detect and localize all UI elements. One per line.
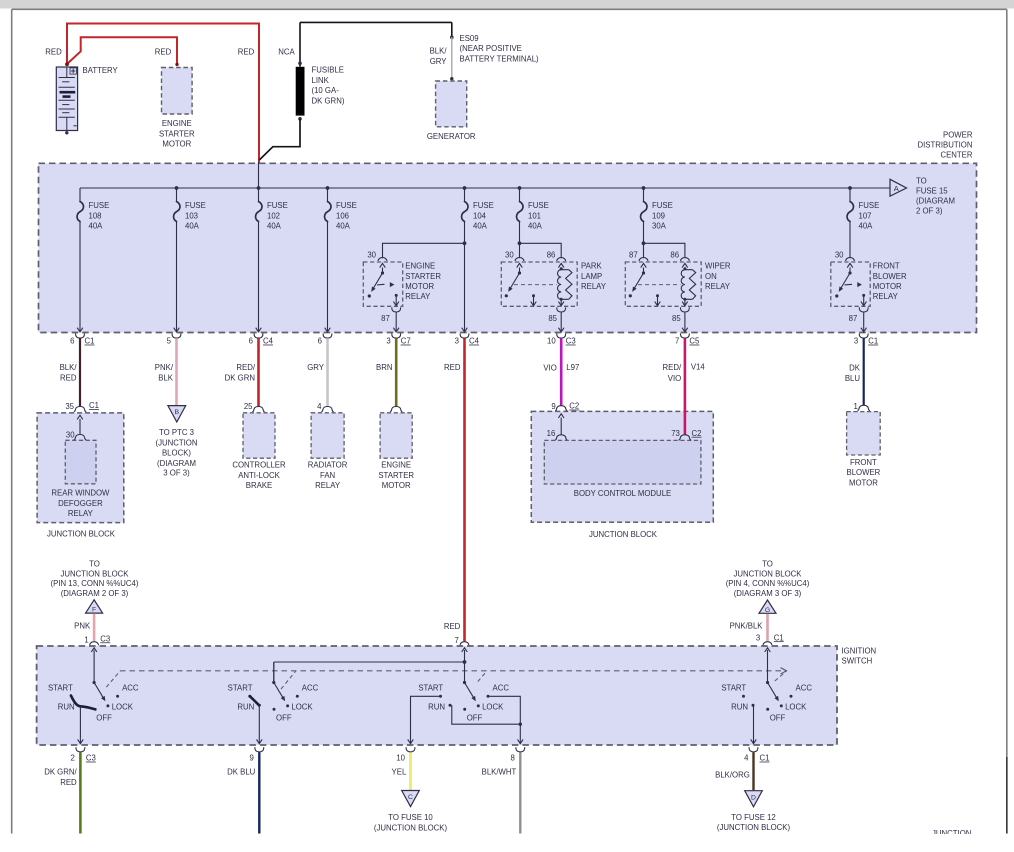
svg-text:F: F	[92, 607, 96, 614]
section4 output to pin 4 C1	[753, 706, 755, 743]
wire fusible link to PDC	[259, 119, 300, 160]
svg-text:(PIN 4, CONN %%UC4): (PIN 4, CONN %%UC4)	[726, 579, 810, 588]
svg-text:RED: RED	[60, 778, 77, 787]
svg-text:30A: 30A	[652, 222, 667, 231]
svg-text:RELAY: RELAY	[581, 282, 607, 291]
relay engine starter motor relay K1 switch	[382, 268, 384, 274]
svg-text:35: 35	[65, 402, 74, 411]
svg-text:30: 30	[367, 251, 376, 260]
svg-text:RED/: RED/	[236, 363, 255, 372]
svg-text:106: 106	[336, 211, 349, 220]
wire RED/DKGRN pin6 C4 to CAB	[257, 338, 260, 406]
svg-text:RUN: RUN	[428, 703, 445, 712]
PDC exit pin 3 C7	[393, 328, 399, 332]
ignition switch section 2	[273, 662, 275, 683]
svg-text:BLK/: BLK/	[60, 363, 78, 372]
svg-text:101: 101	[528, 211, 541, 220]
svg-text:SWITCH: SWITCH	[842, 657, 873, 666]
node engine starter motor terminal	[175, 63, 178, 66]
svg-text:START: START	[418, 683, 443, 692]
node fuse104 branch	[463, 241, 467, 245]
svg-text:DK: DK	[849, 363, 861, 372]
svg-text:RED/: RED/	[663, 363, 682, 372]
svg-text:RED: RED	[444, 363, 461, 372]
svg-text:ACC: ACC	[796, 683, 813, 692]
fuse F103	[174, 188, 206, 231]
PDC exit pin 6	[325, 328, 331, 332]
junction block (rear window defogger)	[37, 413, 124, 523]
svg-text:DK GRN: DK GRN	[225, 373, 255, 382]
node fusible link bottom	[298, 117, 302, 121]
wire pin35 to relay 30	[79, 419, 81, 434]
svg-text:OFF: OFF	[770, 713, 786, 722]
svg-text:5: 5	[167, 337, 172, 346]
svg-text:102: 102	[267, 211, 280, 220]
svg-text:BLK/: BLK/	[430, 47, 448, 56]
svg-text:RUN: RUN	[731, 703, 748, 712]
svg-text:6: 6	[318, 337, 322, 346]
svg-text:16: 16	[547, 429, 556, 438]
svg-text:40A: 40A	[859, 222, 874, 231]
svg-text:FUSE: FUSE	[89, 201, 110, 210]
svg-text:VIO: VIO	[543, 363, 556, 372]
svg-text:(PIN 13, CONN %%UC4): (PIN 13, CONN %%UC4)	[51, 579, 139, 588]
rear window defogger relay box	[65, 440, 96, 484]
node bus junction x=176.5	[175, 186, 179, 190]
position dots	[780, 704, 783, 707]
svg-text:73: 73	[671, 429, 680, 438]
relay wiper on relay K3 box	[625, 262, 701, 306]
svg-text:IGNITION: IGNITION	[842, 646, 877, 655]
svg-text:RELAY: RELAY	[68, 509, 94, 518]
svg-text:FUSE: FUSE	[859, 201, 880, 210]
wire YEL pin 10	[409, 752, 412, 790]
relay park lamp relay K2 coil	[560, 268, 562, 270]
svg-text:GRY: GRY	[430, 57, 448, 66]
svg-text:MOTOR: MOTOR	[382, 481, 411, 490]
svg-text:40A: 40A	[267, 222, 282, 231]
svg-text:(DIAGRAM 3 OF 3): (DIAGRAM 3 OF 3)	[734, 589, 802, 598]
svg-text:RELAY: RELAY	[705, 282, 731, 291]
node bus junction x=464.5	[463, 186, 467, 190]
svg-text:40A: 40A	[528, 222, 543, 231]
svg-text:LOCK: LOCK	[482, 703, 504, 712]
svg-text:JUNCTION BLOCK: JUNCTION BLOCK	[47, 529, 116, 538]
wire DK GRN/RED pin 2 C3	[79, 752, 82, 833]
svg-text:DEFOGGER: DEFOGGER	[58, 499, 103, 508]
svg-text:(DIAGRAM 2 OF 3): (DIAGRAM 2 OF 3)	[61, 589, 129, 598]
svg-text:87: 87	[629, 251, 638, 260]
PDC exit pin 3 C1	[861, 328, 867, 332]
svg-text:C: C	[408, 794, 413, 801]
svg-text:PNK/BLK: PNK/BLK	[730, 622, 764, 631]
node bus junction x=519.5	[518, 186, 522, 190]
relay engine starter motor relay K1 pin 87 output	[395, 294, 398, 297]
PDC exit pin 5	[174, 328, 180, 332]
node pin 4	[321, 407, 333, 412]
svg-text:PARK: PARK	[581, 262, 602, 271]
svg-text:(DIAGRAM: (DIAGRAM	[916, 196, 955, 205]
svg-text:BRN: BRN	[376, 363, 392, 372]
svg-text:FAN: FAN	[320, 471, 335, 480]
wire RED battery to PDC (top red feed)	[67, 24, 259, 163]
svg-text:40A: 40A	[185, 222, 200, 231]
svg-text:DK BLU: DK BLU	[227, 768, 256, 777]
wire DK BLU pin 9	[258, 752, 260, 833]
svg-text:BLK/ORG: BLK/ORG	[715, 771, 750, 780]
svg-text:C4: C4	[469, 337, 480, 346]
svg-text:BLOWER: BLOWER	[847, 468, 881, 477]
wire fuse 104 to pin 3 C4	[464, 222, 466, 331]
svg-text:6: 6	[70, 337, 74, 346]
svg-text:C1: C1	[774, 633, 784, 642]
svg-text:107: 107	[859, 211, 872, 220]
node ES09	[450, 35, 454, 39]
svg-text:JUNCTION BLOCK: JUNCTION BLOCK	[733, 569, 802, 578]
svg-text:RED: RED	[444, 622, 461, 631]
wire GRY pin6 to radiator fan relay	[326, 338, 329, 406]
radiator fan relay box	[311, 413, 344, 458]
relay wiper on relay K3 pin 85 output	[684, 299, 686, 305]
fuse F102	[256, 188, 288, 231]
wire NCA generator to fusible link	[300, 22, 452, 66]
svg-text:40A: 40A	[336, 222, 351, 231]
front blower motor box	[847, 412, 881, 455]
svg-text:104: 104	[473, 211, 487, 220]
wire RED/VIO pin7 C5 to BCM pin 73	[684, 338, 687, 435]
svg-text:MOTOR: MOTOR	[162, 140, 191, 149]
svg-text:LOCK: LOCK	[785, 703, 807, 712]
relay wiper on relay K3 pin 87a stub	[656, 294, 659, 297]
node generator terminal	[450, 77, 453, 80]
svg-text:108: 108	[89, 211, 102, 220]
svg-text:RUN: RUN	[237, 703, 254, 712]
svg-text:ACC: ACC	[122, 683, 139, 692]
svg-text:FUSE: FUSE	[652, 201, 673, 210]
wire BLK/ORG pin 4 C1	[752, 752, 754, 790]
svg-text:3: 3	[455, 337, 459, 346]
mechanical link dashed line	[120, 670, 784, 672]
svg-text:BLOCK): BLOCK)	[162, 449, 191, 458]
svg-text:RELAY: RELAY	[315, 481, 341, 490]
wire BLK/GRY to generator	[451, 37, 453, 78]
svg-text:DK GRN/: DK GRN/	[44, 768, 77, 777]
position dots	[286, 704, 289, 707]
PDC exit pin 3 C4	[462, 328, 468, 332]
svg-text:TO: TO	[89, 560, 100, 569]
body control module box	[544, 440, 701, 484]
node starter motor terminal	[390, 407, 402, 412]
wire fuse 109 to wiper relay 87	[643, 222, 645, 259]
node pin 35 C1	[74, 407, 86, 412]
marker A to fuse 15	[890, 179, 907, 196]
svg-text:(NEAR POSITIVE: (NEAR POSITIVE	[460, 44, 522, 53]
svg-text:LAMP: LAMP	[581, 272, 602, 281]
svg-text:FUSE: FUSE	[528, 201, 549, 210]
wire BRN pin3 C7 to starter motor	[395, 338, 398, 406]
battery B1	[56, 67, 77, 135]
node fuse109 branch	[642, 241, 646, 245]
svg-text:85: 85	[672, 314, 681, 323]
svg-text:C7: C7	[401, 337, 411, 346]
svg-text:MOTOR: MOTOR	[849, 478, 878, 487]
relay wiper on relay K3 coil	[684, 268, 686, 270]
svg-text:BLK: BLK	[158, 373, 174, 382]
svg-text:BATTERY TERMINAL): BATTERY TERMINAL)	[460, 54, 540, 63]
svg-text:2: 2	[71, 754, 75, 763]
wire DKBLU pin3 C1 to front blower motor	[863, 338, 865, 405]
svg-text:JUNCTION BLOCK: JUNCTION BLOCK	[60, 569, 129, 578]
svg-text:1: 1	[84, 636, 88, 645]
fuse F108	[77, 188, 109, 231]
svg-text:C1: C1	[89, 401, 99, 410]
svg-text:A: A	[894, 184, 899, 193]
svg-text:8: 8	[510, 754, 514, 763]
svg-text:BRAKE: BRAKE	[246, 481, 272, 490]
position dots	[477, 704, 480, 707]
svg-text:RED: RED	[60, 373, 77, 382]
svg-text:30: 30	[505, 251, 514, 260]
svg-text:ACC: ACC	[302, 683, 319, 692]
svg-text:ON: ON	[705, 272, 717, 281]
wire fuse 102 to pin 6 C4	[258, 222, 260, 331]
bottom white crop	[0, 834, 1014, 852]
svg-text:10: 10	[547, 337, 556, 346]
svg-text:40A: 40A	[473, 222, 488, 231]
svg-text:TO FUSE 12: TO FUSE 12	[731, 813, 776, 822]
svg-text:3: 3	[854, 337, 858, 346]
svg-text:LOCK: LOCK	[291, 703, 313, 712]
section1 wiper arc	[71, 696, 96, 710]
wire bus bar	[80, 187, 890, 189]
wire fuse 101 to park relay 30	[519, 222, 521, 259]
svg-text:FRONT: FRONT	[850, 458, 877, 467]
svg-text:RED: RED	[238, 47, 255, 56]
engine starter motor (top) box	[162, 68, 193, 115]
svg-text:START: START	[48, 683, 73, 692]
svg-text:4: 4	[744, 754, 749, 763]
fuse F104	[462, 188, 494, 231]
PDC exit pin 6 C1	[77, 328, 83, 332]
svg-text:87: 87	[381, 314, 390, 323]
node front blower motor pin 1	[858, 405, 870, 410]
relay wiper on relay K3 internal dashed link	[638, 284, 680, 286]
node pin 25	[252, 407, 264, 412]
wire feed into PDC	[258, 162, 260, 188]
section3 ACC/RUN output to pin 8	[452, 696, 521, 743]
svg-text:C3: C3	[86, 754, 96, 763]
svg-text:10: 10	[396, 754, 405, 763]
mechanical link diagonal	[281, 671, 296, 689]
svg-text:103: 103	[185, 211, 198, 220]
wire RED pin3 C4 to ignition switch pin 7	[463, 338, 466, 641]
svg-text:V14: V14	[691, 363, 706, 372]
PDC exit pin 6 C4	[256, 328, 262, 332]
svg-text:DISTRIBUTION: DISTRIBUTION	[917, 140, 972, 149]
svg-text:3 OF 3): 3 OF 3)	[163, 468, 190, 477]
svg-text:PNK: PNK	[74, 621, 91, 630]
fusible link F-LINK	[296, 67, 305, 116]
svg-text:MOTOR: MOTOR	[873, 282, 902, 291]
svg-text:7: 7	[675, 337, 679, 346]
wire VIO pin10 C3 to junction block pin 9	[560, 338, 563, 406]
fuse F106	[325, 188, 357, 231]
svg-text:C2: C2	[692, 429, 702, 438]
svg-text:YEL: YEL	[392, 768, 407, 777]
relay park lamp relay K2 pin 87a stub	[532, 294, 535, 297]
svg-text:9: 9	[551, 402, 555, 411]
svg-text:9: 9	[249, 754, 253, 763]
svg-text:3: 3	[756, 634, 760, 643]
svg-text:G: G	[765, 607, 770, 614]
wire ignition feed line	[274, 662, 465, 683]
svg-text:C2: C2	[569, 402, 579, 411]
svg-text:CONTROLLER: CONTROLLER	[232, 461, 286, 470]
svg-text:LOCK: LOCK	[112, 703, 134, 712]
svg-text:BLOWER: BLOWER	[873, 272, 907, 281]
svg-text:BLK/WHT: BLK/WHT	[482, 768, 517, 777]
svg-text:TO FUSE 10: TO FUSE 10	[388, 813, 433, 822]
svg-text:2 OF 3): 2 OF 3)	[916, 206, 943, 215]
svg-text:3: 3	[386, 337, 390, 346]
wire RED battery to engine starter motor	[67, 37, 177, 64]
svg-text:B: B	[175, 409, 180, 416]
svg-text:1: 1	[853, 402, 857, 411]
section3 START output to pin 10	[411, 696, 442, 743]
engine starter motor (lower) box	[380, 413, 412, 458]
svg-text:POWER: POWER	[943, 130, 973, 139]
svg-text:FUSE: FUSE	[473, 201, 494, 210]
section1 output to pin 2 C3	[79, 706, 81, 739]
svg-text:30: 30	[835, 251, 844, 260]
fuse F109	[641, 188, 673, 231]
svg-text:85: 85	[548, 314, 557, 323]
svg-text:JUNCTION BLOCK: JUNCTION BLOCK	[589, 530, 658, 539]
svg-text:RED: RED	[155, 47, 172, 56]
svg-text:FRONT: FRONT	[873, 262, 900, 271]
svg-text:REAR WINDOW: REAR WINDOW	[51, 489, 110, 498]
svg-text:OFF: OFF	[467, 713, 483, 722]
node pin 73 C2	[679, 435, 691, 440]
node fuse101 branch	[518, 241, 522, 245]
wire PNK marker F to ignition pin 1	[93, 614, 96, 641]
svg-text:STARTER: STARTER	[405, 272, 441, 281]
relay park lamp relay K2 pin 85 output	[560, 299, 562, 305]
section2 output to pin 9	[258, 705, 260, 743]
relay front blower motor relay K4 box	[831, 262, 870, 306]
svg-text:C1: C1	[760, 754, 770, 763]
node bus junction x=258.5	[257, 186, 261, 190]
svg-text:(JUNCTION BLOCK): (JUNCTION BLOCK)	[717, 823, 791, 832]
svg-text:VIO: VIO	[668, 374, 681, 383]
svg-text:START: START	[721, 683, 746, 692]
ignition switch section 3	[460, 642, 469, 646]
svg-text:4: 4	[317, 402, 322, 411]
marker D to fuse 12	[745, 791, 763, 807]
svg-text:STARTER: STARTER	[378, 471, 414, 480]
PDC exit pin 10 C3	[558, 328, 564, 332]
svg-text:BODY CONTROL MODULE: BODY CONTROL MODULE	[574, 489, 671, 498]
position dots	[106, 704, 109, 707]
svg-text:START: START	[228, 683, 253, 692]
window top gray bar	[0, 0, 1014, 9]
svg-text:BATTERY: BATTERY	[83, 66, 119, 75]
relay engine starter motor relay K1 box	[363, 262, 402, 306]
controller anti-lock brake box	[243, 413, 275, 458]
fuse F101	[517, 188, 549, 231]
PDC exit pin 7 C5	[682, 328, 688, 332]
svg-text:C1: C1	[868, 337, 878, 346]
wire PNK/BLK marker G to ignition pin 3	[766, 614, 769, 641]
svg-text:40A: 40A	[89, 222, 104, 231]
marker C to fuse 10	[402, 791, 420, 807]
svg-text:FUSE: FUSE	[185, 201, 206, 210]
svg-text:OFF: OFF	[276, 713, 292, 722]
svg-text:L97: L97	[566, 363, 579, 372]
svg-text:D: D	[751, 794, 756, 801]
relay park lamp relay K2 box	[501, 262, 577, 306]
svg-text:87: 87	[849, 314, 858, 323]
svg-text:109: 109	[652, 211, 665, 220]
wire pin9 to pin16	[560, 418, 562, 435]
svg-text:RED: RED	[45, 47, 62, 56]
svg-text:7: 7	[455, 636, 459, 645]
svg-text:STARTER: STARTER	[159, 129, 195, 138]
section2 wiper segment	[250, 696, 259, 705]
relay front blower motor relay K4 pin 87 output	[862, 294, 865, 297]
wire fuse 109 branch to wiper relay 86	[644, 243, 685, 258]
svg-text:FUSIBLE: FUSIBLE	[312, 66, 345, 75]
node bus junction x=327.5	[326, 186, 330, 190]
ignition switch section 4	[763, 642, 772, 646]
svg-text:(DIAGRAM: (DIAGRAM	[157, 459, 196, 468]
svg-text:TO PTC 3: TO PTC 3	[159, 428, 194, 437]
generator GEN box	[436, 81, 467, 127]
relay front blower motor relay K4 switch	[849, 268, 851, 274]
svg-text:25: 25	[244, 402, 253, 411]
svg-text:LINK: LINK	[312, 76, 330, 85]
svg-text:ENGINE: ENGINE	[162, 119, 192, 128]
svg-text:GRY: GRY	[307, 363, 325, 372]
svg-text:C4: C4	[263, 337, 274, 346]
node pin 9 C2	[555, 406, 567, 411]
relay park lamp relay K2 internal dashed link	[514, 284, 557, 286]
node fusible link top	[298, 62, 302, 66]
svg-text:C1: C1	[85, 337, 95, 346]
svg-text:RADIATOR: RADIATOR	[308, 461, 348, 470]
svg-text:RELAY: RELAY	[405, 292, 431, 301]
svg-text:OFF: OFF	[96, 713, 112, 722]
right edge dark segment	[1006, 757, 1008, 834]
svg-text:ENGINE: ENGINE	[381, 461, 411, 470]
svg-text:TO: TO	[762, 560, 773, 569]
mechanical link diagonal	[478, 671, 487, 682]
svg-text:TO: TO	[916, 176, 927, 185]
mechanical link diagonal	[775, 671, 787, 681]
svg-text:NCA: NCA	[278, 47, 295, 56]
wire fuse 106 to pin 6	[327, 222, 329, 331]
wire BLK/RED pin6 C1 to junction block	[79, 338, 81, 406]
svg-text:ANTI-LOCK: ANTI-LOCK	[238, 471, 280, 480]
wire fuse 104 branch to starter relay 30	[383, 243, 465, 258]
power distribution center box	[39, 163, 977, 332]
svg-text:RUN: RUN	[58, 703, 75, 712]
svg-text:86: 86	[670, 251, 679, 260]
svg-text:C3: C3	[100, 634, 110, 643]
wire fuse 107 to blower relay 30	[849, 222, 851, 259]
svg-text:ENGINE: ENGINE	[405, 262, 435, 271]
svg-text:DK GRN): DK GRN)	[312, 96, 345, 105]
